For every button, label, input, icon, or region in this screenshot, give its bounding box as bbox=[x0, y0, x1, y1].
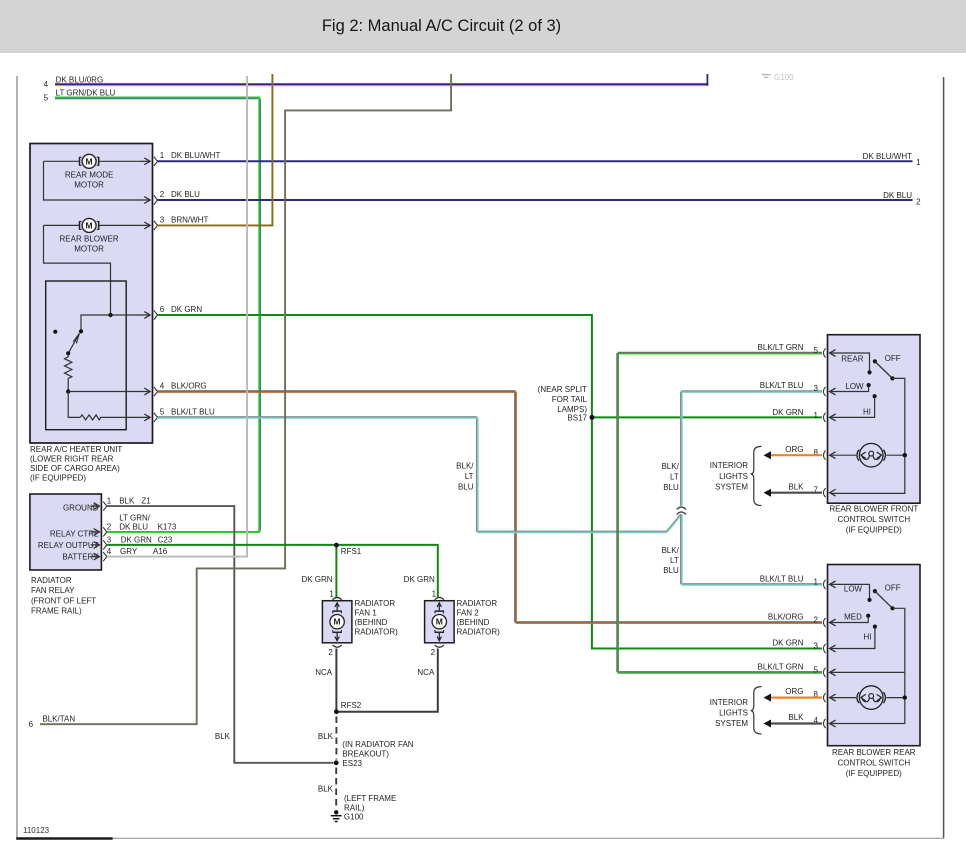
svg-text:FOR TAIL: FOR TAIL bbox=[552, 395, 588, 404]
svg-text:2: 2 bbox=[328, 648, 333, 657]
inline connector arcs on BLK/LT BLU bbox=[677, 507, 686, 509]
svg-text:LOW: LOW bbox=[844, 585, 863, 594]
wire: BLK/TAN circuit 6 to top bbox=[40, 74, 451, 724]
page border frame bbox=[16, 76, 18, 838]
svg-text:1: 1 bbox=[813, 411, 818, 420]
svg-text:BLK/TAN: BLK/TAN bbox=[42, 715, 75, 724]
svg-text:6: 6 bbox=[160, 305, 165, 314]
svg-text:MED: MED bbox=[844, 612, 862, 621]
svg-text:(FRONT OF LEFT: (FRONT OF LEFT bbox=[31, 597, 96, 606]
svg-text:BLK/LT GRN: BLK/LT GRN bbox=[758, 343, 804, 352]
wire: BLK ES23 to ground G100 (dashed) bbox=[335, 768, 337, 810]
svg-text:3: 3 bbox=[813, 384, 818, 393]
svg-text:OFF: OFF bbox=[885, 584, 901, 593]
svg-text:1: 1 bbox=[160, 151, 165, 160]
svg-text:K173: K173 bbox=[158, 523, 177, 532]
svg-text:BREAKOUT): BREAKOUT) bbox=[342, 750, 389, 759]
wire: BLK relay pin 1 to splice ES23 bbox=[107, 506, 334, 763]
svg-text:1: 1 bbox=[107, 497, 112, 506]
svg-text:REAR A/C HEATER UNIT: REAR A/C HEATER UNIT bbox=[30, 445, 122, 454]
svg-text:BLU: BLU bbox=[663, 483, 679, 492]
svg-text:4: 4 bbox=[160, 382, 165, 391]
svg-text:LT: LT bbox=[465, 472, 474, 481]
svg-text:RELAY CTRL: RELAY CTRL bbox=[50, 529, 99, 538]
rear mode motor M1 bbox=[44, 160, 80, 162]
svg-text:DK BLU: DK BLU bbox=[171, 190, 200, 199]
svg-text:Fig 2: Manual A/C Circuit (2 o: Fig 2: Manual A/C Circuit (2 of 3) bbox=[322, 17, 561, 35]
svg-text:BLK/: BLK/ bbox=[661, 546, 679, 555]
svg-text:BLK/: BLK/ bbox=[456, 462, 474, 471]
svg-text:FAN RELAY: FAN RELAY bbox=[31, 586, 75, 595]
wire: LT GRN/DK BLU circuit 5 to radiator fan relay pin 2 bbox=[55, 97, 259, 532]
svg-text:BLK/LT BLU: BLK/LT BLU bbox=[760, 574, 804, 583]
svg-text:RELAY OUTPUT: RELAY OUTPUT bbox=[38, 541, 99, 550]
blower speed switch bbox=[81, 315, 142, 331]
svg-text:M: M bbox=[86, 221, 93, 231]
svg-text:RFS2: RFS2 bbox=[341, 701, 362, 710]
interior lights system feed (rear): ORG bbox=[771, 696, 823, 698]
front switch HI contact, pin 1 bbox=[873, 394, 877, 398]
svg-text:FRAME RAIL): FRAME RAIL) bbox=[31, 607, 82, 616]
svg-text:3: 3 bbox=[813, 642, 818, 651]
svg-text:GROUND: GROUND bbox=[63, 503, 99, 512]
wire: fan 2 NCA to splice RFS2 bbox=[336, 649, 437, 712]
svg-text:REAR MODE: REAR MODE bbox=[65, 171, 113, 180]
svg-text:BLK: BLK bbox=[215, 732, 231, 741]
svg-text:LT GRN/: LT GRN/ bbox=[119, 513, 151, 522]
svg-text:M: M bbox=[86, 156, 93, 166]
ground G100 bbox=[334, 810, 338, 814]
wire: BLK/LT BLU splice upper branch to front switch pin 3 bbox=[681, 390, 822, 392]
heater unit inner switch/resistor sub-box bbox=[46, 281, 127, 430]
splice BS17 bbox=[590, 415, 595, 420]
svg-text:BLK/: BLK/ bbox=[661, 462, 679, 471]
svg-text:REAR BLOWER REAR: REAR BLOWER REAR bbox=[832, 748, 916, 757]
svg-text:(LEFT FRAME: (LEFT FRAME bbox=[344, 794, 396, 803]
svg-text:G100: G100 bbox=[344, 813, 364, 822]
svg-text:BLK: BLK bbox=[318, 732, 334, 741]
svg-text:DK GRN: DK GRN bbox=[171, 305, 202, 314]
front switch illumination lamp bbox=[831, 454, 856, 456]
svg-text:REAR: REAR bbox=[841, 354, 863, 363]
svg-text:BS17: BS17 bbox=[567, 414, 587, 423]
svg-text:BRN/WHT: BRN/WHT bbox=[171, 215, 208, 224]
svg-text:(BEHIND: (BEHIND bbox=[457, 618, 490, 627]
splice ES23 bbox=[334, 760, 339, 765]
svg-text:RAIL): RAIL) bbox=[344, 803, 365, 812]
svg-text:LIGHTS: LIGHTS bbox=[719, 472, 748, 481]
svg-text:CONTROL SWITCH: CONTROL SWITCH bbox=[838, 758, 911, 767]
wire: BLK/LT BLU pin 5 to splice below BS17 bbox=[157, 416, 477, 418]
svg-text:DK BLU/0RG: DK BLU/0RG bbox=[56, 75, 104, 84]
svg-text:REAR BLOWER: REAR BLOWER bbox=[60, 235, 119, 244]
wire: DK GRN relay pin 3 to radiator fans, splice RFS1 bbox=[107, 545, 438, 597]
rear A/C heater unit box bbox=[30, 144, 153, 444]
svg-text:DK GRN: DK GRN bbox=[301, 575, 332, 584]
svg-text:2: 2 bbox=[107, 523, 112, 532]
wire: BLK/LT BLU splice lower branch to rear switch pin 1 bbox=[680, 514, 682, 584]
rear blower rear control switch box bbox=[828, 565, 921, 746]
svg-text:BLK: BLK bbox=[788, 713, 804, 722]
svg-text:BLU: BLU bbox=[458, 483, 474, 492]
svg-text:BLK/LT BLU: BLK/LT BLU bbox=[760, 381, 804, 390]
svg-text:5: 5 bbox=[813, 665, 818, 674]
svg-text:FAN 1: FAN 1 bbox=[355, 609, 378, 618]
svg-text:DK BLU/WHT: DK BLU/WHT bbox=[863, 152, 912, 161]
wire: DK BLU/WHT pin 1 to right edge bbox=[157, 160, 912, 162]
svg-text:OFF: OFF bbox=[885, 354, 901, 363]
rear switch pins 1,2,3,5,6,4 bbox=[823, 580, 825, 589]
svg-text:RADIATOR): RADIATOR) bbox=[457, 628, 501, 637]
svg-text:Z1: Z1 bbox=[141, 497, 151, 506]
svg-text:NCA: NCA bbox=[315, 668, 333, 677]
svg-text:C23: C23 bbox=[158, 535, 173, 544]
svg-text:4: 4 bbox=[107, 547, 112, 556]
svg-text:ORG: ORG bbox=[785, 445, 803, 454]
svg-text:RADIATOR: RADIATOR bbox=[31, 576, 72, 585]
wire: BLK/ORG pin 4 to rear switch pin 2 bbox=[157, 390, 515, 392]
front switch pins 5,3,1,8,7 bbox=[823, 348, 825, 357]
svg-text:RFS1: RFS1 bbox=[341, 547, 362, 556]
rear switch rotor OFF/blade bbox=[873, 589, 877, 593]
svg-text:HI: HI bbox=[864, 632, 872, 641]
svg-text:RADIATOR: RADIATOR bbox=[355, 599, 396, 608]
svg-text:SYSTEM: SYSTEM bbox=[715, 482, 748, 491]
svg-text:DK BLU: DK BLU bbox=[883, 191, 912, 200]
wire: BRN/WHT pin 3 up to top bbox=[157, 74, 272, 225]
svg-text:DK BLU: DK BLU bbox=[119, 523, 148, 532]
svg-text:CONTROL SWITCH: CONTROL SWITCH bbox=[838, 515, 911, 524]
rear blower motor M2 bbox=[44, 224, 80, 226]
svg-text:DK GRN: DK GRN bbox=[121, 535, 152, 544]
heater unit pins 1,2,3,6,4,5 bbox=[141, 160, 150, 162]
rear switch pin 5 common feed bbox=[831, 671, 905, 673]
svg-text:LIGHTS: LIGHTS bbox=[719, 708, 748, 717]
svg-text:LT GRN/DK BLU: LT GRN/DK BLU bbox=[56, 89, 116, 98]
title bar bbox=[0, 0, 966, 53]
svg-text:2: 2 bbox=[431, 648, 436, 657]
wire: BLK/LT GRN front switch pin 5 to rear switch pin 5 bbox=[618, 351, 822, 353]
svg-text:LT: LT bbox=[670, 473, 679, 482]
svg-text:BLU: BLU bbox=[663, 566, 679, 575]
svg-text:BLK/LT GRN: BLK/LT GRN bbox=[758, 662, 804, 671]
svg-text:LT: LT bbox=[670, 556, 679, 565]
svg-text:5: 5 bbox=[813, 346, 818, 355]
faded cut-off ground G100 (top right, partial) bbox=[762, 73, 795, 82]
svg-text:A16: A16 bbox=[153, 547, 168, 556]
svg-text:DK BLU/WHT: DK BLU/WHT bbox=[171, 151, 220, 160]
svg-text:6: 6 bbox=[29, 720, 34, 729]
svg-text:3: 3 bbox=[160, 215, 165, 224]
svg-text:GRY: GRY bbox=[120, 547, 138, 556]
rear blower front control switch box bbox=[828, 335, 921, 504]
rear switch HI contact, pin 3 bbox=[873, 625, 877, 629]
svg-text:2: 2 bbox=[160, 190, 165, 199]
svg-text:G100: G100 bbox=[774, 73, 794, 82]
wire: GRY relay pin 4 to top bbox=[107, 76, 247, 557]
svg-text:BLK: BLK bbox=[318, 784, 334, 793]
wire: DK GRN pin 6 to splice BS17, to front switch pin 1 and rear switch pin 3 bbox=[157, 315, 822, 649]
svg-text:(IF EQUIPPED): (IF EQUIPPED) bbox=[30, 473, 86, 482]
svg-text:5: 5 bbox=[44, 94, 49, 103]
svg-text:FAN 2: FAN 2 bbox=[457, 609, 480, 618]
svg-text:110123: 110123 bbox=[23, 826, 50, 835]
relay pins 1-4 bbox=[91, 505, 100, 507]
svg-text:M: M bbox=[436, 617, 443, 627]
svg-text:(NEAR SPLIT: (NEAR SPLIT bbox=[538, 385, 587, 394]
svg-text:SYSTEM: SYSTEM bbox=[715, 719, 748, 728]
svg-text:BLK: BLK bbox=[119, 497, 135, 506]
splice RFS2 bbox=[334, 709, 339, 714]
blower resistor (vertical) bbox=[65, 353, 72, 391]
svg-text:1: 1 bbox=[432, 590, 437, 599]
svg-text:1: 1 bbox=[916, 158, 921, 167]
svg-text:SIDE OF CARGO AREA): SIDE OF CARGO AREA) bbox=[30, 464, 120, 473]
svg-text:INTERIOR: INTERIOR bbox=[710, 698, 748, 707]
svg-text:LOW: LOW bbox=[845, 382, 864, 391]
svg-text:DK GRN: DK GRN bbox=[772, 639, 803, 648]
svg-text:BLK: BLK bbox=[788, 482, 804, 491]
svg-text:2: 2 bbox=[916, 197, 921, 206]
svg-text:(IF EQUIPPED): (IF EQUIPPED) bbox=[846, 525, 902, 534]
svg-text:(IN RADIATOR FAN: (IN RADIATOR FAN bbox=[342, 740, 413, 749]
svg-text:BLK/LT BLU: BLK/LT BLU bbox=[171, 407, 215, 416]
svg-text:M: M bbox=[334, 617, 341, 627]
interior lights system feed (front): ORG bbox=[771, 454, 823, 456]
resistor to pin 5 (horizontal) bbox=[68, 392, 80, 418]
interior lights system feed (front): BLK bbox=[771, 492, 823, 494]
svg-text:HI: HI bbox=[863, 407, 871, 416]
svg-text:RADIATOR: RADIATOR bbox=[457, 599, 498, 608]
interior lights system feed (rear): BLK bbox=[771, 722, 823, 724]
svg-text:REAR BLOWER FRONT: REAR BLOWER FRONT bbox=[829, 504, 918, 513]
svg-text:4: 4 bbox=[44, 80, 49, 89]
wire: BLK RFS2 to splice ES23 (dashed) bbox=[335, 717, 337, 760]
rear switch MED contact, pin 2 bbox=[866, 614, 870, 618]
svg-text:ORG: ORG bbox=[785, 687, 803, 696]
svg-text:INTERIOR: INTERIOR bbox=[710, 461, 748, 470]
svg-text:RADIATOR): RADIATOR) bbox=[355, 628, 399, 637]
front switch LOW contact, pin 3 bbox=[867, 383, 871, 387]
svg-text:DK GRN: DK GRN bbox=[404, 575, 435, 584]
radiator fan relay box bbox=[30, 494, 102, 570]
svg-text:DK GRN: DK GRN bbox=[772, 408, 803, 417]
svg-text:(IF EQUIPPED): (IF EQUIPPED) bbox=[846, 769, 902, 778]
svg-text:5: 5 bbox=[160, 407, 165, 416]
svg-text:(BEHIND: (BEHIND bbox=[355, 618, 388, 627]
rear switch illumination lamp bbox=[831, 697, 856, 699]
front switch internal: pin5 to REAR contact bbox=[831, 353, 870, 371]
svg-text:NCA: NCA bbox=[417, 668, 435, 677]
front switch rotor OFF/blade bbox=[873, 359, 877, 363]
wire: DK BLU pin 2 to right edge bbox=[157, 199, 912, 201]
svg-text:ES23: ES23 bbox=[342, 759, 362, 768]
svg-text:MOTOR: MOTOR bbox=[74, 245, 104, 254]
svg-text:1: 1 bbox=[813, 577, 818, 586]
svg-text:3: 3 bbox=[107, 535, 112, 544]
svg-text:BLK/ORG: BLK/ORG bbox=[768, 613, 804, 622]
wire: DK BLU/ORG circuit 4 (top) bbox=[55, 83, 708, 85]
rear switch internal: pin1 to LOW contact bbox=[831, 584, 870, 598]
svg-text:MOTOR: MOTOR bbox=[74, 181, 104, 190]
svg-text:2: 2 bbox=[813, 616, 818, 625]
svg-text:BLK/ORG: BLK/ORG bbox=[171, 382, 207, 391]
svg-text:1: 1 bbox=[329, 590, 334, 599]
wire: fan 1 NCA to splice RFS2 bbox=[335, 649, 337, 712]
svg-text:(LOWER RIGHT REAR: (LOWER RIGHT REAR bbox=[30, 454, 114, 463]
